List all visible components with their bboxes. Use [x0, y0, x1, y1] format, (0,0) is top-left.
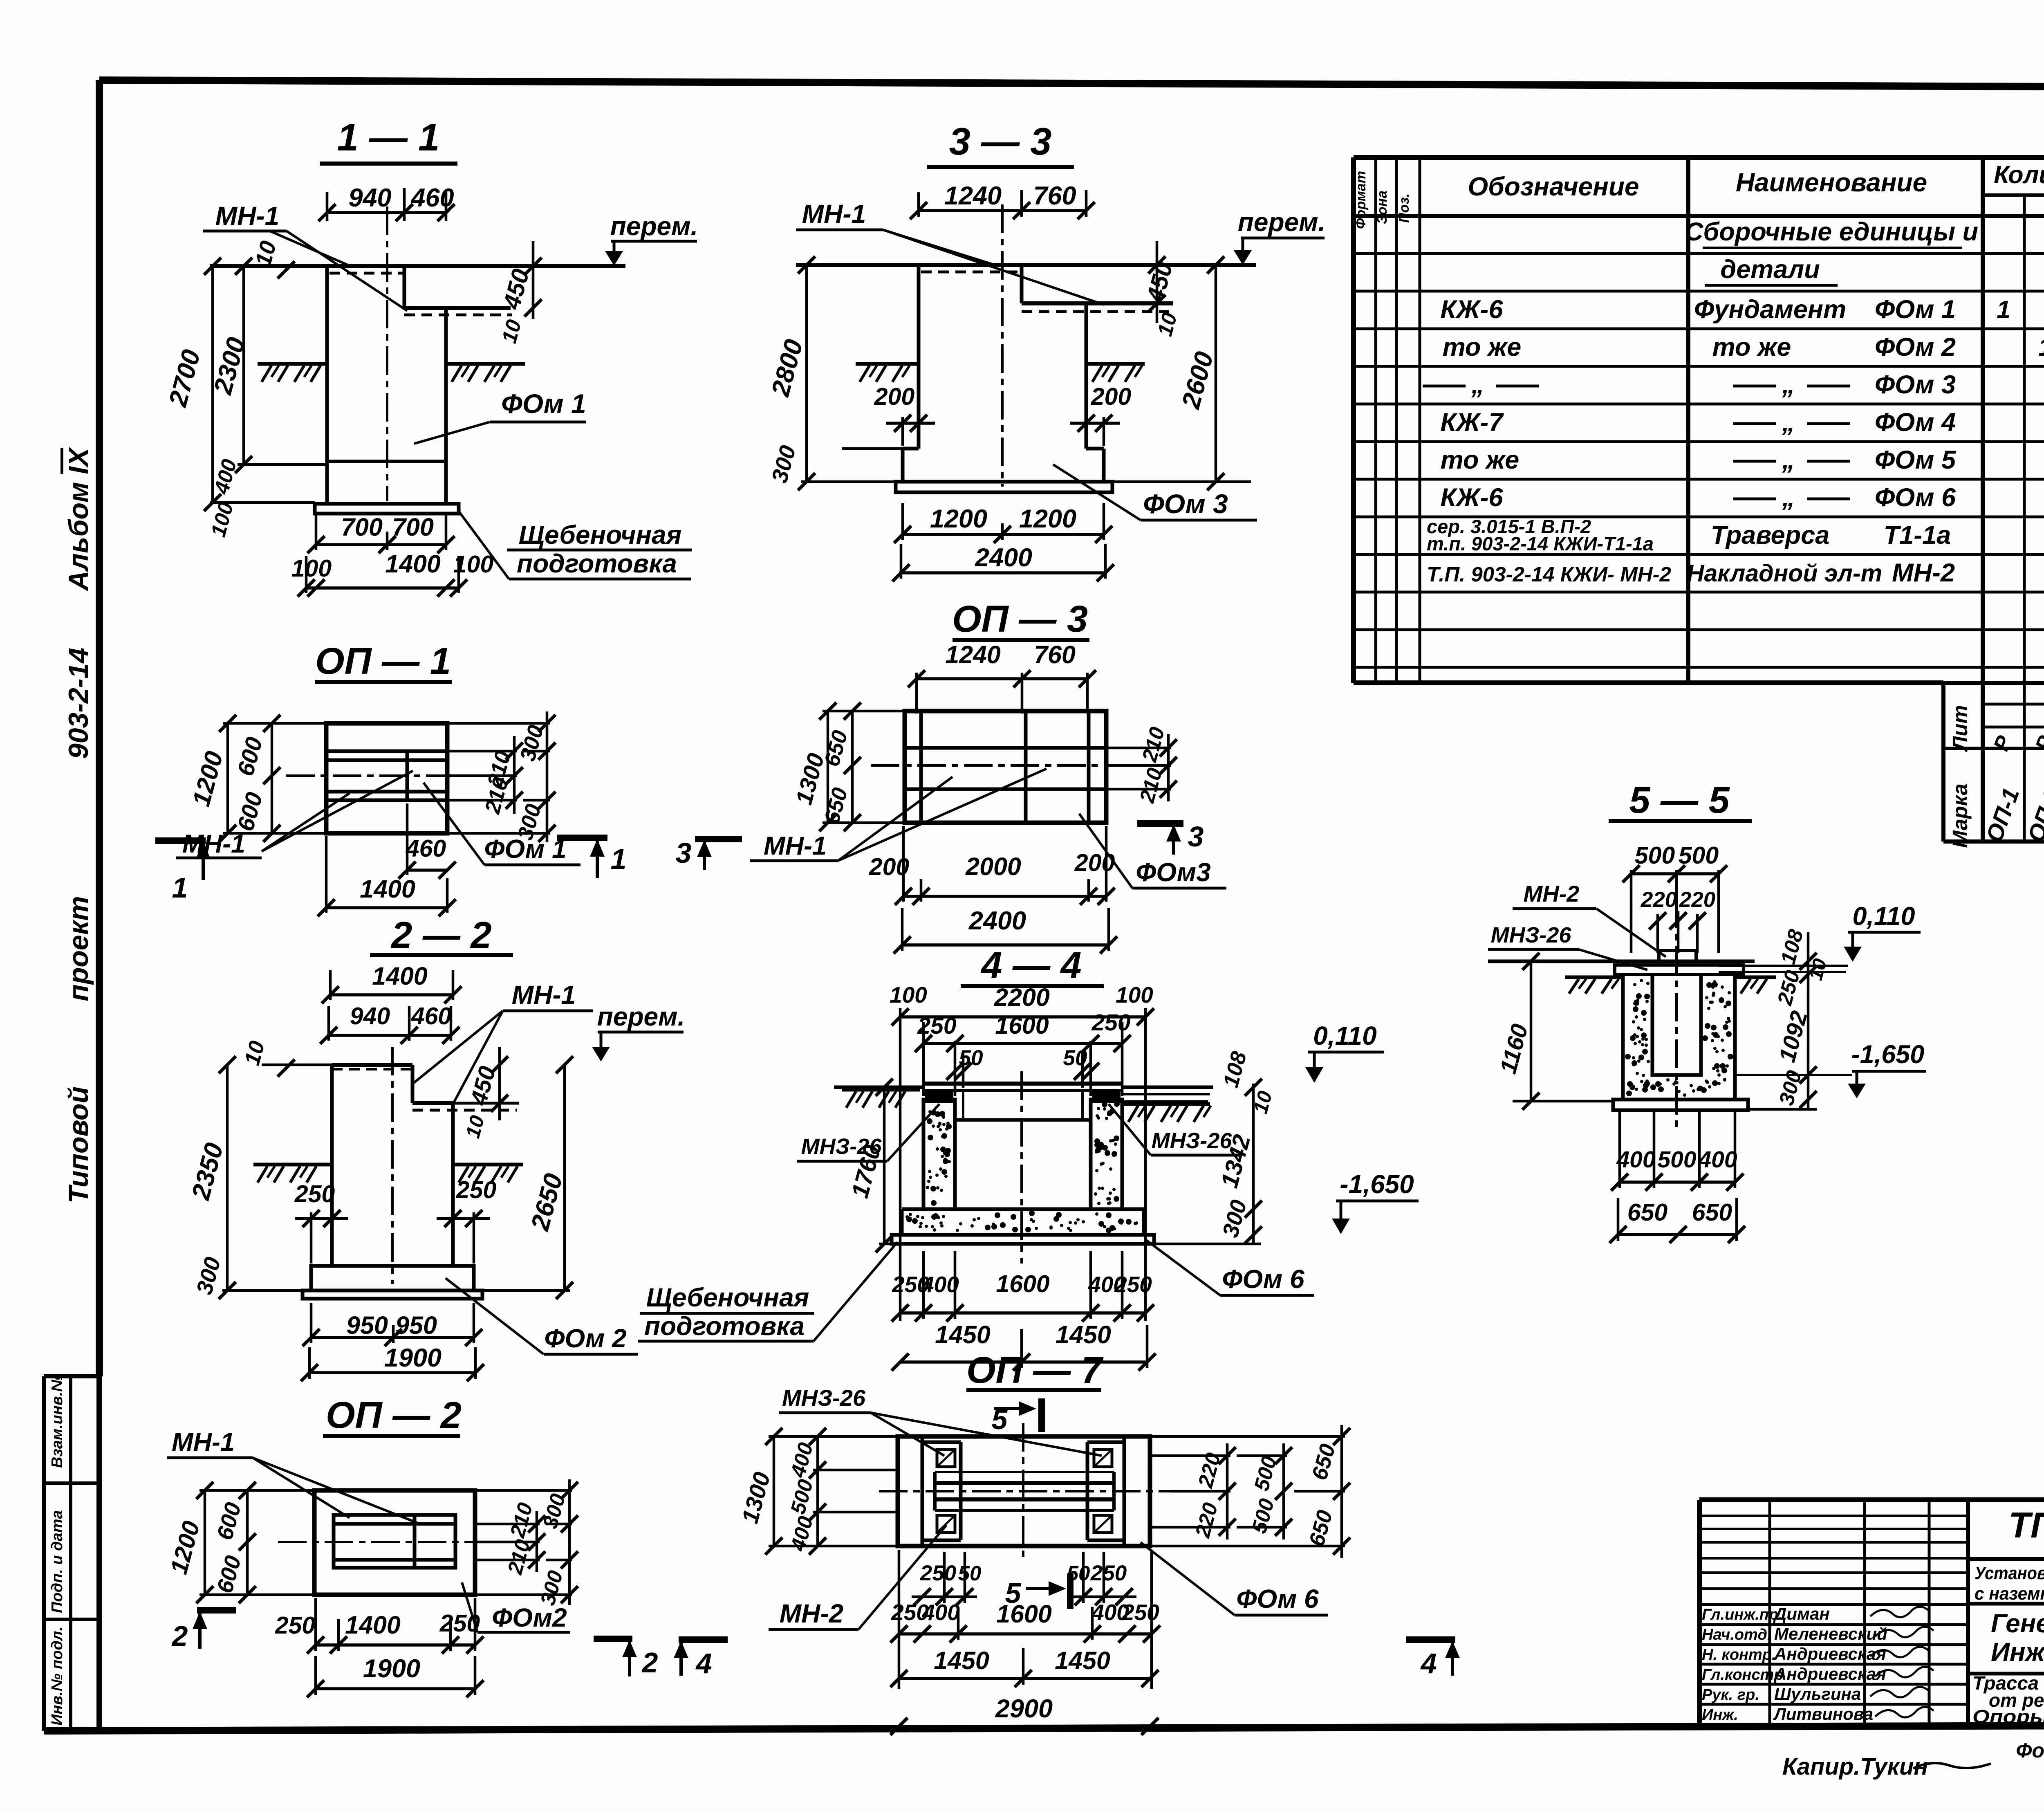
title block outer	[1699, 1500, 2044, 1729]
dim column right of 5-5	[1748, 927, 1831, 1109]
svg-text:400: 400	[922, 1600, 960, 1625]
dim 1240/760 above OP-3	[908, 641, 1096, 714]
dim 1200/1200 below 3-3	[894, 503, 1112, 543]
svg-text:2: 2	[171, 1620, 188, 1652]
dim 108/10/1342/300 right of 4-4	[1154, 1049, 1277, 1244]
svg-text:220: 220	[1679, 888, 1715, 912]
OP-3 centerline	[871, 764, 1141, 767]
dim 650/650 below 5-5	[1609, 1198, 1745, 1243]
svg-text:460: 460	[406, 835, 446, 862]
svg-text:Андриевская: Андриевская	[1774, 1644, 1886, 1663]
dim 2650 right of 2-2	[482, 1056, 573, 1299]
soil hatch right 5-5	[1737, 977, 1776, 994]
svg-text:КЖ-6: КЖ-6	[1440, 483, 1503, 512]
title block signature rows	[1702, 1604, 1934, 1723]
dim 400/500/400 left of OP-7	[786, 1428, 898, 1555]
svg-text:перем.: перем.	[1238, 207, 1326, 237]
table row 3 KZh-6 FOm1	[1440, 295, 2010, 324]
svg-text:Накладной эл-т: Накладной эл-т	[1687, 560, 1882, 587]
dim 200/2000/200 below OP-3	[869, 826, 1115, 905]
svg-text:ФОм 1: ФОм 1	[1875, 295, 1956, 324]
svg-text:МНЗ-26: МНЗ-26	[1152, 1129, 1233, 1153]
dim 100/2200/100 top of 4-4	[890, 982, 1154, 1321]
svg-text:Поз.: Поз.	[1396, 193, 1412, 223]
section 3-3 title	[927, 120, 1074, 167]
svg-text:500: 500	[1635, 842, 1675, 869]
dim 300/300 right of OP-1	[447, 711, 556, 843]
svg-text:МН-2: МН-2	[1892, 559, 1955, 587]
top band 5-5	[1615, 965, 1744, 974]
soil hatch left 2-2	[253, 1165, 332, 1183]
svg-text:1450: 1450	[1056, 1321, 1111, 1349]
svg-text:700: 700	[392, 513, 434, 541]
svg-text:1600: 1600	[996, 1270, 1049, 1297]
svg-text:Нач.отд.: Нач.отд.	[1702, 1626, 1771, 1643]
traverse beam 4-4	[923, 1084, 1122, 1120]
svg-text:Формат: Формат	[1353, 171, 1369, 229]
dim 10 left of 2-2	[240, 1038, 332, 1077]
section mark 4 right of OP-7	[1406, 1640, 1460, 1679]
dim 220/220 of 5-5	[1641, 888, 1715, 953]
svg-text:250: 250	[456, 1176, 497, 1203]
table header texts	[1353, 161, 2044, 229]
section 5-5 title	[1609, 779, 1752, 821]
svg-text:5 — 5: 5 — 5	[1629, 779, 1730, 821]
dim 1400 top of 2-2	[322, 962, 462, 1003]
svg-text:2400: 2400	[975, 543, 1032, 572]
dim 2350 left of 2-2	[186, 1056, 303, 1299]
label MN-1 of 2-2	[413, 980, 593, 1104]
svg-text:250: 250	[294, 1180, 335, 1207]
dim 1300 left of OP-3	[791, 702, 905, 831]
svg-text:1900: 1900	[363, 1654, 420, 1683]
dim 950/950 below 2-2	[303, 1303, 482, 1346]
dim 250/400/1600/400/250 below OP-7	[890, 1550, 1160, 1689]
dim 1240/760 top of 3-3	[910, 182, 1095, 219]
label MN-1 of 3-3	[796, 199, 1104, 305]
svg-text:Альбом IX: Альбом IX	[63, 447, 94, 592]
svg-text:650: 650	[1692, 1199, 1732, 1226]
svg-text:-1,650: -1,650	[1851, 1040, 1925, 1069]
bottom plate 4-4	[892, 1235, 1154, 1244]
level mark 0,110 of 5-5	[1844, 902, 1921, 962]
svg-text:Генеральный план.: Генеральный план.	[1991, 1609, 2044, 1638]
svg-text:МНЗ-26: МНЗ-26	[1491, 923, 1572, 947]
plan OP-2 title	[323, 1394, 462, 1436]
cap block 5-5	[1659, 951, 1696, 961]
dim 400/500/400 below 5-5	[1611, 1112, 1744, 1191]
svg-text:МНЗ-26: МНЗ-26	[782, 1385, 866, 1411]
soil hatch right 3-3	[1088, 364, 1145, 382]
svg-text:1400: 1400	[385, 550, 441, 578]
svg-text:1400: 1400	[372, 962, 428, 990]
bottom plate 5-5	[1613, 1100, 1748, 1110]
OP-2 centerline	[278, 1541, 507, 1543]
dim 2600 right of 3-3	[1112, 256, 1251, 490]
dim 450/10 right of 3-3	[1141, 241, 1181, 339]
svg-text:250: 250	[1091, 1010, 1130, 1036]
soil hatch left 5-5	[1565, 977, 1622, 994]
svg-text:ОП — 7: ОП — 7	[966, 1349, 1104, 1391]
svg-text:Марка: Марка	[1948, 783, 1972, 848]
level mark -1,650 of 4-4	[1332, 1169, 1419, 1234]
dim 2700 left of 1-1	[164, 258, 221, 511]
ground level line 3-3	[796, 263, 1256, 267]
svg-text:„: „	[1782, 446, 1795, 474]
svg-text:903-2-14: 903-2-14	[63, 648, 94, 759]
svg-text:детали: детали	[1720, 255, 1820, 284]
svg-text:„: „	[1782, 408, 1795, 437]
dim 940/460 top of 1-1	[318, 184, 455, 221]
svg-text:1450: 1450	[934, 1647, 989, 1674]
svg-text:Зона: Зона	[1374, 191, 1390, 224]
table row 2 detali	[1705, 255, 1838, 285]
svg-text:Инженерные сети.: Инженерные сети.	[1991, 1637, 2044, 1667]
OP-7 outer rectangle	[898, 1436, 1150, 1546]
title block tech description	[1968, 1563, 2044, 1604]
svg-text:Рук. гр.: Рук. гр.	[1702, 1686, 1759, 1703]
svg-text:ФОм 6: ФОм 6	[1875, 483, 1956, 512]
svg-text:760: 760	[1034, 641, 1076, 669]
dim 10 top-left 1-1	[250, 238, 295, 278]
base plate 2-2	[303, 1290, 482, 1299]
dim 50/50 of 4-4	[946, 1046, 1099, 1088]
dim 460 below OP-1	[399, 803, 456, 879]
dim 1450/1450 below OP-7	[890, 1647, 1159, 1687]
label FOm 6 of OP-7	[1141, 1542, 1328, 1615]
dim 600/600 left of OP-1	[232, 715, 280, 842]
svg-text:460: 460	[410, 184, 454, 212]
soil hatch right 2-2	[455, 1165, 523, 1183]
svg-text:2000: 2000	[965, 853, 1021, 880]
svg-text:Инж.: Инж.	[1702, 1706, 1738, 1723]
svg-text:МН-1: МН-1	[764, 832, 827, 860]
svg-text:ФОм 3: ФОм 3	[1143, 489, 1228, 519]
table row 9 traversa	[1427, 516, 2044, 554]
svg-text:ТП 903-2-14: ТП 903-2-14	[2008, 1505, 2044, 1545]
svg-text:2900: 2900	[995, 1694, 1053, 1723]
svg-text:ФОм 6: ФОм 6	[1236, 1584, 1319, 1614]
svg-text:перем.: перем.	[597, 1002, 685, 1031]
dim 940/460 top of 2-2	[320, 1003, 459, 1044]
dim 210/210 right of OP-3	[1106, 725, 1177, 806]
centerline 1-1	[386, 206, 388, 501]
svg-text:3: 3	[676, 837, 692, 869]
svg-text:МН-1: МН-1	[215, 201, 279, 231]
OP-1 rectangle	[326, 723, 447, 833]
svg-text:1200: 1200	[930, 505, 987, 533]
svg-text:ФОм 2: ФОм 2	[1875, 333, 1956, 361]
section 4-4 title	[961, 945, 1104, 986]
svg-text:200: 200	[1091, 383, 1132, 410]
svg-text:1240: 1240	[945, 641, 1001, 669]
dim 300 left bottom of 3-3	[766, 442, 903, 485]
dim 1200 left of OP-1	[187, 715, 326, 842]
centerline 2-2	[391, 1047, 394, 1284]
svg-text:подготовка: подготовка	[644, 1311, 805, 1341]
right pier 4-4	[1091, 1100, 1122, 1209]
svg-text:то же: то же	[1712, 333, 1791, 361]
plan OP-1 title	[315, 640, 452, 682]
dim 650/650 left of OP-3	[820, 702, 861, 831]
table row 4 to zhe FOm2	[1443, 333, 2044, 361]
svg-text:Гл.инж.пр.: Гл.инж.пр.	[1702, 1606, 1783, 1623]
dim 600/600 left of OP-2	[212, 1482, 256, 1603]
label MN-1 of OP-2	[167, 1428, 421, 1524]
svg-text:3: 3	[1188, 821, 1204, 853]
label FOm 6 of 4-4	[1145, 1239, 1314, 1295]
dim 1900 below OP-2	[307, 1654, 484, 1697]
svg-text:950: 950	[395, 1311, 437, 1339]
svg-text:2400: 2400	[968, 907, 1026, 935]
OP-7 centerlines	[879, 1423, 1170, 1560]
ground level line 1-1	[210, 264, 625, 268]
dim 500/500 right of OP-7	[1237, 1443, 1292, 1539]
svg-text:КЖ-6: КЖ-6	[1440, 295, 1503, 324]
svg-text:3 — 3: 3 — 3	[949, 120, 1052, 163]
svg-text:950: 950	[346, 1311, 388, 1339]
level mark -1,650 of 5-5	[1735, 1040, 1926, 1098]
anchor pads MNZ-26 on piers 4-4	[925, 1092, 1121, 1103]
specification table grid	[1354, 157, 2044, 842]
OP-7 beam	[935, 1472, 1114, 1510]
dim 1900 below 2-2	[301, 1344, 484, 1381]
dim 650/650 right of OP-7	[1150, 1425, 1350, 1558]
svg-text:„: „	[1471, 370, 1484, 399]
section 2-2 title	[370, 914, 513, 956]
svg-text:„: „	[1782, 483, 1795, 512]
dim 50/250 pair below OP-7 right	[1067, 1552, 1136, 1605]
svg-text:100: 100	[1116, 982, 1153, 1008]
svg-text:ФОм 3: ФОм 3	[1875, 370, 1956, 399]
svg-text:КЖ-7: КЖ-7	[1440, 408, 1504, 437]
svg-text:Траверса: Траверса	[1711, 521, 1830, 550]
label MN-2 of OP-7	[769, 1525, 946, 1629]
dim 1450/1450 below 4-4	[892, 1321, 1156, 1371]
svg-text:ФОм 5: ФОм 5	[1875, 446, 1956, 474]
inner line between piers 4-4	[955, 1118, 1091, 1122]
svg-text:ФОм 6: ФОм 6	[1222, 1264, 1304, 1294]
dim 2400 below OP-3	[894, 907, 1117, 954]
plan OP-7 title	[966, 1349, 1104, 1391]
dim 700/700 below 1-1	[307, 513, 455, 553]
OP-2 rectangle	[314, 1490, 475, 1595]
svg-text:ФОм 4: ФОм 4	[1875, 408, 1956, 437]
svg-text:650: 650	[1627, 1199, 1668, 1226]
svg-text:2: 2	[641, 1647, 658, 1679]
centerline 4-4	[1020, 1071, 1023, 1263]
level mark perem of 2-2	[592, 1002, 685, 1061]
OP-1 centerline	[286, 774, 503, 777]
section mark 4 left of OP-7	[674, 1640, 728, 1679]
svg-text:то же: то же	[1443, 333, 1522, 361]
svg-text:1: 1	[2038, 333, 2044, 361]
svg-text:0,110: 0,110	[1313, 1021, 1376, 1050]
section mark 3 left of OP-3	[676, 837, 742, 870]
section mark 2 left of OP-2	[171, 1610, 236, 1652]
svg-text:1 — 1: 1 — 1	[337, 116, 440, 159]
svg-text:2 — 2: 2 — 2	[390, 914, 491, 956]
dim 250 right pier of 2-2	[437, 1176, 496, 1263]
svg-text:1: 1	[1997, 296, 2010, 323]
section mark 5 bottom of OP-7	[1005, 1573, 1070, 1609]
dim 250/400/1600/400/250 below 4-4	[892, 1251, 1154, 1322]
stamp boxes bottom-left	[44, 1374, 99, 1731]
label MN-1 leaders of OP-3	[750, 769, 1047, 861]
dim 400/100 left bottom of 1-1	[206, 457, 315, 539]
centerline 5-5	[1675, 900, 1678, 1129]
pedestal 2-2	[311, 1266, 474, 1290]
label FOm 3 of OP-3	[1079, 814, 1226, 888]
OP-7 anchor squares	[937, 1450, 1112, 1533]
dim 200 right foot 3-3	[1070, 383, 1131, 446]
svg-text:с наземными металлическими рез: с наземными металлическими резервуарами2…	[1975, 1584, 2044, 1604]
svg-text:Гл.констр: Гл.констр	[1702, 1666, 1784, 1683]
dim 250 left pier of 2-2	[294, 1180, 348, 1263]
svg-text:940: 940	[348, 184, 391, 212]
svg-text:Литвинова: Литвинова	[1773, 1704, 1873, 1723]
dim 2900 below OP-7	[890, 1694, 1159, 1735]
svg-text:Подп. и дата: Подп. и дата	[49, 1510, 66, 1613]
svg-text:460: 460	[411, 1003, 452, 1030]
footing plate 3-3	[896, 482, 1112, 492]
svg-text:Типовой: Типовой	[63, 1086, 94, 1203]
svg-text:250: 250	[920, 1561, 956, 1585]
svg-text:Обозначение: Обозначение	[1468, 172, 1639, 201]
svg-text:200: 200	[874, 383, 915, 410]
table row 1 Sborochnye edinitsy	[1685, 218, 1978, 248]
svg-text:1900: 1900	[384, 1344, 442, 1372]
dim 100/1400/100 below 1-1	[291, 550, 494, 597]
level mark perem of 3-3	[1234, 207, 1325, 265]
svg-text:Формат 221: Формат 221	[2016, 1739, 2044, 1762]
table row 5 ditto FOm3	[1423, 370, 2044, 399]
svg-text:ОП — 3: ОП — 3	[952, 598, 1088, 640]
svg-text:то же: то же	[1441, 446, 1520, 474]
svg-text:1200: 1200	[1019, 505, 1076, 533]
pavement line 5-5	[1488, 961, 1848, 972]
column outline 2-2	[332, 1065, 519, 1266]
svg-text:4: 4	[695, 1647, 712, 1679]
svg-text:ОП — 2: ОП — 2	[326, 1394, 462, 1436]
svg-text:1600: 1600	[996, 1600, 1052, 1628]
soil hatch left 3-3	[856, 364, 919, 382]
svg-text:50: 50	[958, 1562, 982, 1585]
title block trassa cell	[1972, 1672, 2044, 1727]
dim 1760 left of 4-4	[846, 1079, 893, 1252]
svg-text:700: 700	[341, 513, 383, 541]
svg-text:100: 100	[291, 555, 332, 582]
section mark 1 right of OP-1	[557, 838, 626, 878]
svg-text:Диман: Диман	[1773, 1604, 1830, 1623]
dim 1300 left of OP-7	[737, 1428, 898, 1555]
label MNZ-26 of OP-7	[779, 1385, 1102, 1456]
dim 1200 left of OP-2	[165, 1482, 314, 1603]
table row 6 KZh-7 FOm4	[1440, 408, 2044, 437]
svg-text:Фундамент: Фундамент	[1694, 295, 1846, 324]
svg-text:Опоры ОП-1÷ОП-3, ОП-7.: Опоры ОП-1÷ОП-3, ОП-7.	[1972, 1706, 2044, 1727]
svg-text:1: 1	[611, 843, 627, 875]
dim 1160 left of 5-5	[1495, 953, 1613, 1110]
label FOm 3 of 3-3	[1053, 465, 1257, 520]
section 1-1 title	[320, 116, 457, 164]
label MN-1 of OP-1	[176, 771, 413, 858]
svg-text:220: 220	[1641, 888, 1677, 912]
level mark perem of 1-1	[605, 211, 698, 266]
level mark 0,110 of 4-4	[1305, 1021, 1384, 1083]
svg-text:Установка мазутоснабжения Q=5,: Установка мазутоснабжения Q=5,5/11м³/ч; …	[1975, 1563, 2044, 1583]
table row 7 to zhe FOm5	[1441, 446, 2044, 474]
dim 220/220 right of OP-7	[1150, 1443, 1236, 1540]
svg-text:400: 400	[1616, 1147, 1655, 1173]
svg-text:МН-2: МН-2	[1524, 881, 1580, 907]
svg-text:ФОм 1: ФОм 1	[501, 388, 586, 419]
dim 450/10 right of 2-2	[462, 1047, 508, 1140]
svg-text:940: 940	[350, 1003, 390, 1030]
title block left grid	[1699, 1500, 1968, 1729]
svg-text:Щебеночная: Щебеночная	[519, 520, 682, 550]
soil hatch right 1-1	[448, 364, 525, 382]
svg-text:-1,650: -1,650	[1340, 1169, 1414, 1199]
svg-text:МН-1: МН-1	[512, 980, 576, 1010]
dim 2400 below 3-3	[892, 543, 1114, 581]
svg-text:500: 500	[1657, 1147, 1696, 1173]
svg-text:1400: 1400	[345, 1611, 401, 1639]
label Schebenochnaya podgotovka of 1-1	[459, 511, 692, 579]
svg-text:4: 4	[1420, 1647, 1437, 1679]
svg-text:0,110: 0,110	[1853, 902, 1915, 931]
dim 300/300 right of OP-2	[475, 1479, 578, 1608]
svg-text:Взам.инв.№: Взам.инв.№	[49, 1374, 66, 1468]
label FOm 1	[414, 388, 586, 444]
svg-text:Наименование: Наименование	[1736, 168, 1927, 197]
dim 250/1600/250 of 4-4	[915, 1010, 1131, 1096]
svg-text:250: 250	[1121, 1600, 1159, 1625]
svg-text:ФОм 2: ФОм 2	[544, 1324, 626, 1353]
svg-text:Шульгина: Шульгина	[1774, 1684, 1861, 1703]
foundation body 5-5	[1623, 974, 1735, 1100]
dim 210/210 right of OP-1	[447, 736, 523, 817]
label MN-2 of 5-5	[1513, 881, 1666, 957]
table row 8 KZh-6 FOm6	[1440, 483, 2044, 512]
svg-text:МН-2: МН-2	[780, 1599, 843, 1628]
label FOm 1 of OP-1	[424, 783, 580, 865]
dim 2800 left of 3-3	[766, 256, 919, 490]
dim 200 left foot 3-3	[874, 383, 935, 446]
svg-text:Капир.Тукин: Капир.Тукин	[1782, 1753, 1928, 1780]
svg-text:760: 760	[1033, 182, 1076, 210]
plan OP-3 title	[952, 598, 1089, 640]
svg-text:400: 400	[921, 1272, 959, 1297]
svg-text:МН-1: МН-1	[802, 199, 866, 229]
svg-text:Щебеночная: Щебеночная	[646, 1283, 809, 1312]
lit marka block	[1943, 683, 2044, 848]
label MNZ-26 right of 4-4	[1109, 1104, 1241, 1155]
ground line left 4-4	[834, 1087, 923, 1108]
section mark 5 top of OP-7	[992, 1398, 1042, 1435]
svg-text:1450: 1450	[935, 1321, 991, 1349]
label MN-1 of 1-1	[203, 201, 407, 311]
footing plate 1-1	[315, 504, 459, 514]
title block general plan cell	[1968, 1604, 2044, 1729]
svg-text:250: 250	[1090, 1561, 1127, 1585]
label FOm 2 of 2-2	[446, 1278, 638, 1354]
svg-text:Н. контр.: Н. контр.	[1702, 1646, 1776, 1663]
svg-text:1600: 1600	[995, 1012, 1049, 1039]
column outline 1-1	[327, 266, 512, 503]
dim 210/210 right of OP-2	[475, 1500, 545, 1577]
svg-text:4 — 4: 4 — 4	[980, 945, 1081, 986]
